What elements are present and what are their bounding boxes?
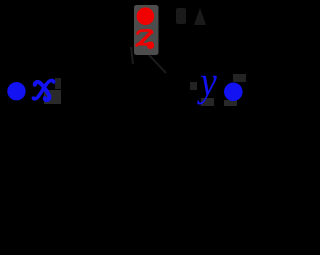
faint halo left of y: [190, 82, 197, 90]
faint halo above right dot: [233, 74, 246, 82]
faint halo below y label: [201, 98, 214, 106]
label x (blue), cursive math italic: [33, 80, 55, 100]
marker dot, y axis (blue): [224, 83, 243, 102]
label z (red), cursive math italic: [137, 30, 153, 47]
faint halo below right dot: [224, 100, 237, 106]
faint axis line (diagonal, down-right): [149, 55, 166, 73]
svg-text:y: y: [197, 60, 217, 106]
faint axis line (vertical, below z label): [131, 47, 133, 64]
faint halo right of x, upper: [55, 78, 61, 89]
marker dot, z axis (red): [137, 7, 155, 25]
marker dot, x axis (blue): [7, 82, 25, 100]
faint ghost glyphs top-right: [176, 8, 206, 25]
faint halo right of x label: [44, 90, 61, 104]
gray highlight block behind z-dot label: [134, 5, 159, 55]
